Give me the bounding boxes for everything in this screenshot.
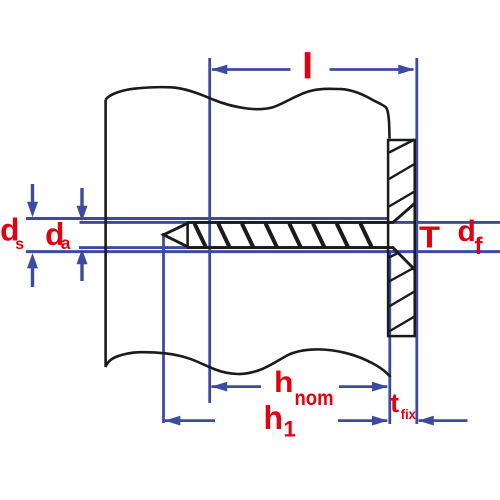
svg-text:1: 1	[284, 417, 296, 442]
svg-text:d: d	[458, 215, 476, 248]
svg-text:h: h	[264, 399, 284, 436]
svg-text:h: h	[274, 366, 294, 399]
svg-text:T: T	[419, 221, 440, 255]
svg-text:s: s	[15, 236, 24, 253]
svg-text:nom: nom	[295, 387, 334, 410]
svg-text:fix: fix	[401, 406, 416, 422]
svg-text:f: f	[475, 233, 484, 260]
svg-text:l: l	[303, 47, 313, 86]
svg-text:t: t	[390, 388, 399, 418]
svg-text:a: a	[61, 233, 71, 253]
